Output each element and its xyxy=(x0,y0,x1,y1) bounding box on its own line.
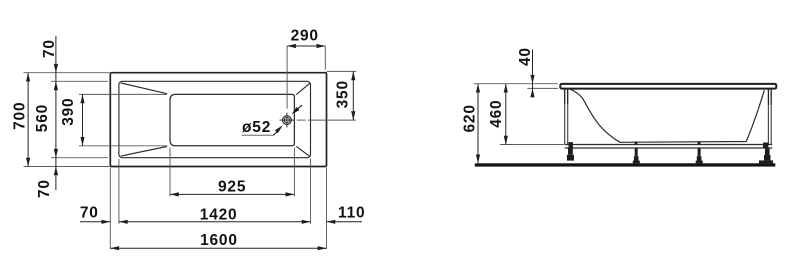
side view extension lines xyxy=(474,84,564,145)
svg-text:460: 460 xyxy=(488,100,505,128)
dimension 925 xyxy=(170,193,294,195)
dimension 110 xyxy=(327,221,363,223)
drain crosshair horizontal xyxy=(280,119,295,121)
inner rim edge rounded rectangle xyxy=(119,81,311,157)
foot 3 xyxy=(696,148,703,163)
svg-text:70: 70 xyxy=(41,39,58,58)
adjuster screw mid-right xyxy=(698,142,701,145)
dimension 390 xyxy=(82,94,84,145)
tub interior profile xyxy=(570,89,764,142)
dimension 700 xyxy=(27,73,29,167)
left frame upright xyxy=(565,104,568,144)
right frame upright xyxy=(768,105,771,144)
svg-text:290: 290 xyxy=(291,27,319,44)
svg-text:110: 110 xyxy=(338,204,365,221)
outer tub rim rectangle xyxy=(110,73,326,167)
svg-text:40: 40 xyxy=(517,47,534,66)
svg-text:700: 700 xyxy=(12,102,29,130)
svg-text:ø52: ø52 xyxy=(242,119,271,136)
dimension 290 xyxy=(287,45,325,47)
svg-text:560: 560 xyxy=(34,104,51,132)
svg-text:925: 925 xyxy=(218,179,246,196)
left wall flange dark xyxy=(565,89,568,104)
slope diagonal top-left xyxy=(121,83,167,94)
right wall flange dark xyxy=(768,89,771,105)
floor line xyxy=(475,163,776,166)
svg-text:350: 350 xyxy=(335,80,352,108)
dimension 350 xyxy=(352,71,354,120)
adjuster screw mid-left xyxy=(635,142,638,145)
dimension 1420 xyxy=(119,221,311,223)
extension lines plan view xyxy=(24,46,357,249)
slope diagonal top-right xyxy=(296,83,310,95)
drain inner circle xyxy=(284,118,289,123)
slope diagonal bottom-left xyxy=(121,147,167,157)
dimension 460 xyxy=(505,84,507,145)
leader line for drain label xyxy=(242,134,274,136)
rail bracket right xyxy=(763,143,768,149)
foot 1 xyxy=(567,148,574,161)
rim bar profile xyxy=(560,84,776,89)
rail bracket left xyxy=(569,142,573,148)
svg-text:620: 620 xyxy=(462,104,479,132)
basin opening rounded rectangle xyxy=(170,94,294,145)
svg-text:1420: 1420 xyxy=(200,206,238,223)
svg-text:1600: 1600 xyxy=(200,232,238,249)
dimension 70 bottom-left xyxy=(80,221,110,223)
dimension 560 and 70 shared line xyxy=(55,36,57,190)
svg-text:70: 70 xyxy=(36,179,53,198)
svg-text:70: 70 xyxy=(80,204,99,221)
slope diagonal bottom-right xyxy=(296,146,310,157)
dimension 620 xyxy=(477,84,479,164)
drain crosshair vertical xyxy=(286,113,288,128)
foot 2 xyxy=(633,148,640,163)
drain outer circle xyxy=(283,116,292,125)
frame bottom rail xyxy=(565,145,773,149)
svg-text:390: 390 xyxy=(60,98,77,126)
foot 4 xyxy=(759,149,773,164)
dimension 40 xyxy=(532,50,534,98)
dimension 1600 xyxy=(110,247,326,249)
